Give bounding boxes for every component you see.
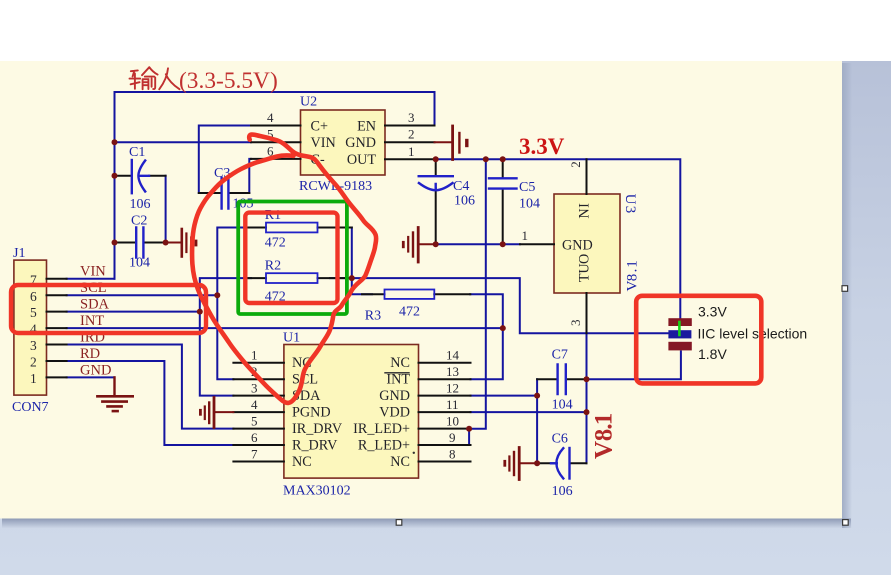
svg-text:104: 104	[129, 256, 150, 271]
jumper select mark	[678, 322, 681, 335]
svg-text:5: 5	[251, 413, 258, 428]
svg-text:472: 472	[399, 305, 420, 320]
svg-text:V: V	[624, 280, 640, 291]
wire R2 left to SDA to U1 SDA	[200, 278, 251, 396]
svg-text:12: 12	[446, 380, 459, 395]
svg-text:GND: GND	[345, 135, 376, 151]
wire SCL	[67, 294, 218, 296]
resistor labels	[265, 208, 420, 324]
svg-text:(3.3-5.5V): (3.3-5.5V)	[179, 68, 278, 94]
green rect annotation	[238, 202, 347, 315]
capacitor C3	[199, 192, 250, 194]
ground at C2	[166, 229, 196, 257]
svg-text:3.3V: 3.3V	[519, 134, 565, 159]
svg-text:4: 4	[251, 397, 258, 412]
red voltage 1.8V rotated	[591, 413, 618, 459]
U2 labels	[299, 95, 372, 195]
svg-text:1: 1	[30, 371, 37, 386]
svg-text:INT: INT	[386, 372, 410, 388]
wire U1 GND pin12	[471, 395, 538, 397]
svg-text:106: 106	[130, 197, 151, 212]
svg-text:3: 3	[251, 380, 258, 395]
wire R1 right down	[332, 228, 352, 279]
wire R1 left to SCL to U1 SCL	[217, 228, 251, 380]
svg-text:GND: GND	[379, 388, 410, 404]
svg-text:R2: R2	[265, 259, 281, 274]
wire SDA	[67, 311, 200, 313]
J1 pin stubs	[47, 279, 67, 378]
svg-text:U2: U2	[300, 95, 317, 110]
svg-text:3: 3	[408, 110, 415, 125]
junction IR_LED+	[466, 426, 472, 432]
svg-text:GND: GND	[562, 238, 593, 254]
wire GND rail C4 C5 U3	[436, 243, 520, 245]
svg-text:R1: R1	[265, 208, 281, 223]
junction C1/C2/gnd	[163, 240, 169, 246]
wire 3.3V rail	[435, 159, 681, 317]
junction INT/R3	[500, 325, 506, 331]
svg-text:8: 8	[449, 446, 456, 461]
wire VIN top rail	[115, 91, 435, 93]
svg-text:1: 1	[522, 228, 529, 243]
wire 1.8V pullup rail to jumper center	[352, 278, 669, 333]
ground at GND rail left	[403, 228, 435, 263]
svg-text:VDD: VDD	[379, 405, 410, 421]
svg-text:14: 14	[446, 348, 460, 363]
svg-text:SDA: SDA	[80, 297, 110, 313]
jumper pad bottom	[668, 342, 691, 351]
capacitor C2	[115, 242, 166, 244]
svg-text:PGND: PGND	[292, 405, 331, 421]
svg-text:8: 8	[591, 429, 618, 442]
svg-text:R_DRV: R_DRV	[292, 438, 338, 454]
jumper annotation text	[698, 304, 808, 363]
svg-text:104: 104	[552, 398, 573, 413]
ground at U2 pin2	[435, 126, 467, 160]
junction VIN/C1	[112, 173, 118, 179]
svg-text:VIN: VIN	[311, 135, 336, 151]
wire U3 OUT 1.8V vertical	[586, 333, 588, 463]
capacitor C4	[435, 159, 437, 244]
wire node to R3 left	[352, 278, 372, 294]
jumper pad top	[668, 318, 691, 326]
wire EN drop	[434, 92, 436, 126]
svg-text:1.8V: 1.8V	[698, 346, 727, 362]
wire U1 VDD pin11	[471, 411, 587, 413]
svg-text:106: 106	[552, 484, 573, 499]
U3 box	[554, 194, 620, 293]
svg-text:104: 104	[519, 197, 540, 212]
U1 labels	[283, 331, 351, 499]
ground at C6	[505, 448, 537, 480]
junction C7/1.8V	[584, 376, 590, 382]
svg-text:6: 6	[30, 289, 37, 304]
wire C7 left vertical	[536, 379, 538, 463]
svg-text:O: O	[577, 254, 593, 264]
svg-text:C4: C4	[453, 179, 469, 194]
svg-text:2: 2	[30, 355, 37, 370]
svg-text:7: 7	[251, 446, 258, 461]
stray dot mark	[413, 452, 415, 454]
wire 3.3V long vertical to IR_LED	[469, 159, 486, 428]
sheet shadow	[842, 63, 852, 528]
svg-text:U: U	[577, 263, 593, 273]
svg-text:CON7: CON7	[12, 400, 49, 415]
wire C1 right	[165, 176, 167, 243]
U1 pin stubs	[233, 363, 470, 462]
U3 labels	[562, 203, 593, 282]
svg-text:10: 10	[446, 413, 459, 428]
capacitor labels	[129, 145, 573, 499]
svg-text:T: T	[577, 273, 593, 282]
selection handle bottom-middle	[396, 520, 402, 526]
junction VIN/U2pin5	[112, 139, 118, 145]
svg-text:SCL: SCL	[80, 280, 107, 296]
svg-text:C6: C6	[552, 432, 568, 447]
red rect annotation R1R2	[245, 213, 337, 303]
INT overline	[385, 372, 409, 374]
schematic sheet	[0, 61, 842, 519]
svg-text:OUT: OUT	[347, 152, 376, 168]
wire VIN to U2 pin5	[115, 141, 252, 143]
svg-text:RD: RD	[80, 346, 100, 362]
wire R3 right to INT net	[470, 294, 503, 379]
wire VIN vertical	[114, 92, 116, 279]
junction 3.3V/C5	[500, 156, 506, 162]
U2 box	[301, 110, 386, 175]
svg-text:2: 2	[568, 161, 583, 168]
svg-text:3: 3	[568, 319, 583, 326]
svg-text:C5: C5	[519, 180, 535, 195]
svg-text:1: 1	[251, 348, 258, 363]
wire R2 right to node	[330, 277, 352, 279]
junction gndrail/C4	[433, 241, 439, 247]
svg-text:C+: C+	[311, 119, 328, 135]
earth ground at J1 GND	[97, 377, 132, 411]
svg-text:106: 106	[454, 194, 475, 209]
svg-text:V: V	[591, 441, 618, 459]
junction GND/C7	[534, 393, 540, 399]
svg-text:GND: GND	[80, 363, 111, 379]
svg-text:13: 13	[446, 364, 459, 379]
svg-text:5: 5	[30, 305, 37, 320]
svg-text:R_LED+: R_LED+	[358, 438, 410, 454]
jumper pad center	[668, 330, 691, 338]
ground at U1 PGND	[200, 398, 233, 428]
svg-text:INT: INT	[80, 313, 104, 329]
junction SDA/R2	[197, 309, 203, 315]
svg-text:.: .	[591, 423, 618, 429]
svg-text:3.3V: 3.3V	[698, 304, 727, 320]
svg-text:IIC level selection: IIC level selection	[698, 326, 808, 342]
svg-text:1: 1	[591, 413, 618, 426]
svg-text:105: 105	[233, 197, 254, 212]
U1 box	[284, 345, 419, 479]
svg-text:NC: NC	[292, 454, 312, 470]
capacitor C1	[115, 175, 166, 177]
svg-text:C1: C1	[129, 145, 145, 160]
svg-text:9: 9	[449, 430, 456, 445]
wire C7 right to jumper bottom	[587, 352, 681, 380]
svg-text:NC: NC	[390, 454, 410, 470]
svg-text:C7: C7	[552, 348, 568, 363]
svg-text:IR_DRV: IR_DRV	[292, 421, 343, 437]
svg-text:4: 4	[267, 110, 274, 125]
wire J1 GND	[67, 376, 115, 378]
junction 3.3V/LED rail	[483, 156, 489, 162]
junction C6/gnd	[534, 460, 540, 466]
junction gndrail/C5	[500, 241, 506, 247]
svg-text:C2: C2	[131, 214, 147, 229]
wire INT	[67, 327, 503, 329]
wire RD	[67, 361, 234, 445]
svg-text:8: 8	[624, 274, 640, 282]
svg-text:.: .	[624, 269, 640, 273]
wire IRD	[67, 345, 234, 429]
capacitor C7	[537, 378, 586, 380]
svg-text:11: 11	[446, 397, 459, 412]
junction SCL/R1	[214, 292, 220, 298]
svg-text:U1: U1	[283, 331, 300, 346]
junction 3.3V/C4	[433, 156, 439, 162]
red rect annotation jumper	[636, 296, 761, 384]
junction VDD/1.8V	[584, 409, 590, 415]
svg-text:J1: J1	[13, 246, 25, 261]
svg-text:U: U	[622, 194, 638, 205]
red rect annotation J1 pins	[11, 285, 206, 333]
svg-text:1: 1	[408, 144, 415, 159]
U3 pin stubs	[520, 159, 587, 333]
resistor R1	[246, 227, 352, 229]
svg-text:R3: R3	[365, 309, 381, 324]
svg-text:MAX30102: MAX30102	[283, 484, 351, 499]
svg-text:EN: EN	[357, 119, 376, 135]
junction R1/R2/R3 node	[349, 275, 355, 281]
svg-text:VIN: VIN	[80, 264, 106, 280]
connector J1 box	[14, 260, 47, 395]
selection handle right-middle	[842, 286, 848, 292]
svg-text:IR_LED+: IR_LED+	[353, 421, 410, 437]
wire J1 VIN	[67, 278, 115, 280]
net labels	[80, 264, 111, 379]
svg-text:N: N	[577, 208, 593, 218]
resistor R3	[362, 293, 470, 295]
wire C3 to C-	[249, 159, 251, 193]
selection handle bottom-right corner	[843, 520, 849, 526]
svg-text:2: 2	[408, 127, 415, 142]
wire IR_LED to R_LED	[468, 429, 470, 445]
svg-text:472: 472	[265, 236, 286, 251]
capacitor C5	[502, 159, 504, 244]
svg-text:I: I	[577, 203, 593, 208]
svg-text:3: 3	[30, 338, 37, 353]
title 输入(3.3-5.5V)	[130, 67, 180, 89]
capacitor C6	[537, 462, 586, 464]
svg-text:6: 6	[251, 430, 258, 445]
svg-text:1: 1	[624, 260, 640, 268]
svg-text:3: 3	[622, 206, 638, 214]
junction VIN/C2	[112, 240, 118, 246]
wire C+ to C3	[199, 126, 251, 194]
svg-text:NC: NC	[390, 355, 410, 371]
U2 pin stubs	[251, 126, 435, 160]
red freehand loop	[192, 135, 376, 403]
resistor R2	[246, 277, 352, 279]
J1 labels	[12, 246, 49, 415]
